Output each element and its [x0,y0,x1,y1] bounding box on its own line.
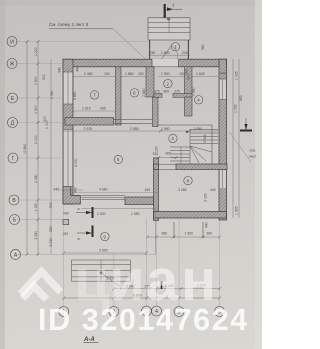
veranda dims 940 2500 1550 [63,212,156,237]
svg-text:1 550: 1 550 [131,212,140,216]
bottom extension lines [64,204,220,307]
svg-text:2 000: 2 000 [34,135,38,144]
svg-text:А: А [14,252,18,258]
svg-text:900: 900 [49,202,53,208]
svg-text:2 460: 2 460 [84,72,93,76]
svg-text:См.: См. [250,149,256,153]
exterior wall right [219,59,227,220]
room 8 dims [178,188,216,192]
porch dims 235 1600 225 [148,51,190,55]
svg-text:440: 440 [205,222,209,228]
svg-text:1 150: 1 150 [34,203,38,212]
svg-text:Е: Е [11,96,15,102]
svg-text:900: 900 [207,232,213,236]
left chain texts [23,47,53,246]
svg-text:11 660: 11 660 [23,144,27,154]
svg-text:4 660: 4 660 [99,188,108,192]
interior dims row (y=75) [84,72,226,77]
dim line y=192.2 living room [74,191,159,193]
svg-text:440: 440 [76,66,80,72]
section mark right [240,118,252,131]
veranda outline (room 9) [82,208,156,254]
partition below rooms 7|6 [65,118,114,126]
svg-text:лист: лист [249,155,257,159]
svg-text:440: 440 [54,188,60,192]
stair dot [186,131,188,133]
svg-text:940: 940 [58,67,62,73]
level mark near 1425 [161,281,163,289]
svg-text:435: 435 [100,107,106,111]
exterior wall top [63,59,227,67]
svg-text:3 280: 3 280 [178,188,187,192]
room 7 bottom dims [82,107,106,111]
svg-text:2: 2 [167,81,170,86]
bottom terrace steps [72,260,131,287]
svg-text:Ж: Ж [10,61,15,67]
left chain ticks [26,40,40,256]
svg-text:900: 900 [164,90,170,94]
svg-text:1 000: 1 000 [45,120,49,129]
dim line y=130 across [64,131,219,158]
svg-text:1 550: 1 550 [161,72,170,76]
partition rooms 2|4 [185,67,193,97]
svg-text:2 585: 2 585 [130,127,139,131]
watermark CIAN chevron logo [21,272,61,300]
dim 5000 line [64,252,147,254]
stair dims [153,152,172,156]
window W5 in right wall [219,79,227,100]
svg-text:960: 960 [162,232,168,236]
svg-text:300: 300 [42,74,46,80]
svg-text:150: 150 [155,146,159,152]
dim 2720 line [72,280,131,282]
exterior wall left [63,59,73,204]
svg-text:2 015: 2 015 [84,127,93,131]
svg-text:2 500: 2 500 [97,212,106,216]
room 2 bottom partition [154,94,162,98]
porch dot marker [167,17,170,20]
section mark 1 (top) [165,3,182,19]
svg-text:2 580: 2 580 [50,90,54,99]
svg-text:2 880: 2 880 [192,87,196,96]
glazed band bottom of living room [82,196,126,200]
svg-text:900: 900 [166,152,172,156]
thin wall continuation to stair [114,120,153,124]
svg-text:1 900: 1 900 [34,76,38,85]
svg-text:600: 600 [185,69,189,74]
svg-text:275: 275 [174,90,180,94]
svg-text:4 000: 4 000 [74,158,78,167]
svg-text:3 915: 3 915 [203,134,207,143]
svg-text:1 550: 1 550 [161,127,170,131]
svg-text:440: 440 [210,188,216,192]
svg-text:1 200: 1 200 [34,47,38,56]
axis circles left [7,37,21,260]
room 8 left wall [154,158,159,221]
svg-text:2 280: 2 280 [34,174,38,183]
caption A-A [83,337,99,343]
svg-text:2 850: 2 850 [73,91,77,100]
window W4 in left wall [63,72,73,187]
partition rooms 7|6 [116,67,122,125]
svg-text:300: 300 [187,74,191,80]
svg-text:9: 9 [103,234,106,239]
svg-text:Б: Б [13,217,17,223]
svg-text:1 325: 1 325 [235,206,239,215]
note see sheet (right) [249,149,257,159]
svg-text:375: 375 [154,90,160,94]
right dim chain [233,59,239,218]
svg-text:150: 150 [145,188,151,192]
svg-text:150: 150 [104,72,110,76]
vertical small dims inside [42,66,209,228]
svg-text:3: 3 [172,136,175,141]
svg-text:3 025: 3 025 [204,193,208,202]
svg-text:250: 250 [49,226,53,232]
svg-text:253: 253 [63,232,69,236]
svg-text:5: 5 [117,157,120,162]
room labels 7 6 2 4 3 5 8 [90,79,202,184]
svg-text:1 605: 1 605 [196,72,205,76]
axis circles bottom [59,306,225,317]
bottom-right dims 960 1600 900 [147,236,220,238]
partition rooms 6|2 block [146,67,154,97]
svg-text:Д: Д [11,120,15,126]
entrance door gap in top wall [152,46,179,68]
svg-text:А-А: А-А [83,337,95,343]
bottom-left wall corner [63,187,80,204]
svg-text:В: В [12,198,16,204]
terrace dot [100,271,103,274]
svg-text:И: И [10,39,14,45]
svg-text:1 025: 1 025 [234,104,238,113]
dim ticks bottom [62,222,221,300]
svg-text:880: 880 [239,95,243,101]
svg-text:225: 225 [182,51,188,55]
note: see scheme 2 sheet 5 [49,22,146,60]
svg-text:980: 980 [201,44,205,50]
dim line 440/440 at bottom-left [58,189,83,191]
svg-text:1 025: 1 025 [235,71,239,80]
svg-text:440: 440 [220,72,226,76]
svg-text:1 300: 1 300 [34,105,38,114]
left dim chain outer [27,42,51,255]
interior dims room2 row (y=93) [154,90,180,94]
room 8 top wall [154,164,159,170]
svg-text:Г: Г [12,156,15,162]
svg-text:2 090: 2 090 [194,127,203,131]
svg-text:8: 8 [187,178,190,183]
svg-text:6: 6 [133,91,136,96]
svg-text:ID 320147624: ID 320147624 [38,303,249,337]
porch steps (top entrance) [148,18,190,59]
svg-text:1 600: 1 600 [185,232,194,236]
svg-text:а: а [78,207,80,211]
left axis leader lines [17,42,156,255]
svg-text:7: 7 [93,93,96,98]
svg-text:150: 150 [138,72,144,76]
window W6 in right wall (room 8) [219,170,227,188]
living room dims [99,188,150,192]
room 8 bottom wall [154,212,227,219]
dims 2000 275 / 1425 2170 [126,283,206,288]
stair left wall [153,97,159,127]
svg-text:1 865: 1 865 [125,72,134,76]
svg-text:1: 1 [174,44,177,49]
room 9 label [101,232,109,240]
paper shading overlays [0,0,262,6]
svg-text:4: 4 [197,98,200,103]
svg-text:2 080: 2 080 [34,231,38,240]
section mark a (lower) [77,226,93,242]
staircase [158,125,218,164]
svg-text:2 030: 2 030 [49,238,53,247]
svg-text:а: а [78,237,80,241]
svg-text:235: 235 [150,51,156,55]
wall block L (living room bottom-right) [125,197,154,205]
veranda pier [63,219,69,224]
section mark a (upper) [76,207,93,218]
svg-text:440: 440 [74,187,78,193]
svg-text:См. схему 2 лист 5: См. схему 2 лист 5 [49,22,89,27]
dim 9600 line [64,297,220,299]
room 4 left wall lower [185,97,193,116]
svg-text:2 880: 2 880 [142,88,146,97]
svg-text:2 015: 2 015 [82,107,91,111]
dim line y=111 room 7 [74,110,116,112]
room 1 label (porch) [171,43,179,51]
dim row line y=76.3 (rooms 7,6,2,4) [73,75,218,77]
watermark letters [74,248,216,313]
